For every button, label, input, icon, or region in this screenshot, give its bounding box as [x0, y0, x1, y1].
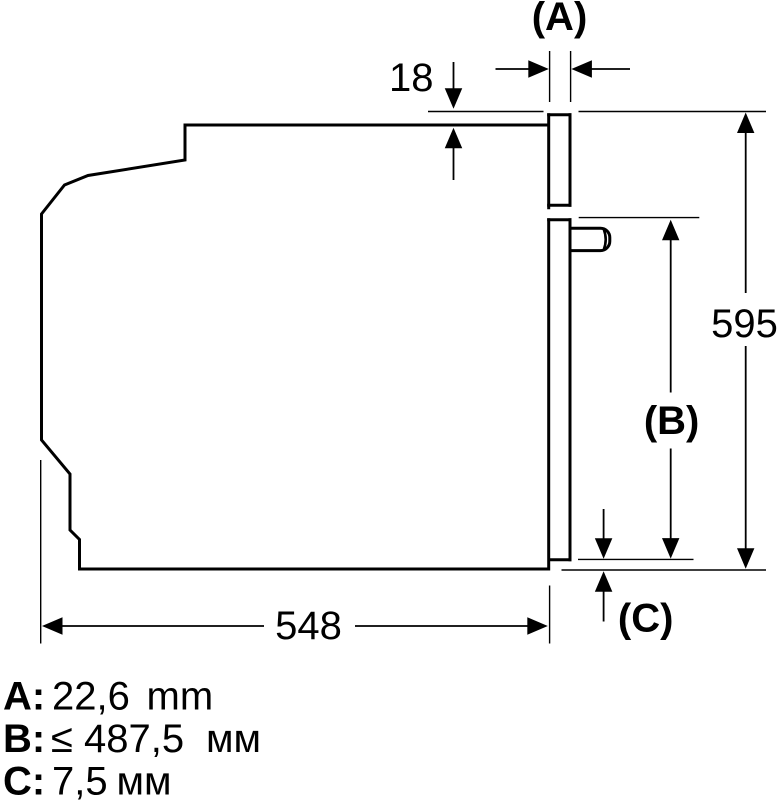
dimension B top arrowhead [662, 220, 679, 241]
svg-text:B:≤487,5мм: B:≤487,5мм [3, 717, 261, 761]
dimension 548 right arrowhead [527, 617, 548, 635]
dimension C upper arrowhead [595, 538, 613, 559]
dimension 548 left arrowhead [42, 617, 63, 635]
svg-text:18: 18 [389, 56, 434, 100]
door upper section left edge [547, 113, 550, 209]
dimension A right extension line [570, 51, 572, 102]
dimension A left arrowhead [528, 60, 549, 77]
svg-text:C:7,5мм: C:7,5мм [3, 760, 172, 800]
oven body outline [42, 125, 551, 569]
dimension 548 left line [62, 625, 264, 627]
door upper section bottom edge [547, 204, 571, 207]
svg-text:A:22,6mm: A:22,6mm [3, 675, 213, 719]
dimension 595 top arrowhead [737, 113, 754, 134]
dimension C upper arrow stem [603, 509, 605, 539]
dimension 595 bottom arrowhead [737, 548, 754, 569]
door handle outline [571, 228, 610, 250]
dimension B bottom arrowhead [662, 538, 679, 559]
dimension B lower line [670, 449, 672, 540]
door lower section left edge [547, 218, 550, 570]
dimension 548 right extension line [549, 586, 551, 644]
door lower section top edge [547, 218, 571, 221]
door lower section right edge [569, 218, 572, 561]
svg-text:595: 595 [711, 302, 778, 346]
dimension A right arrow line [591, 68, 630, 70]
dimension 595 upper line [745, 132, 747, 293]
svg-text:(C): (C) [618, 596, 674, 640]
dimension C lower arrow stem [603, 591, 605, 622]
dimension A right arrowhead [571, 60, 592, 77]
dimension 18 upper arrow stem [453, 62, 455, 90]
dimension A left arrow line [496, 68, 530, 70]
dimension C lower arrowhead [595, 571, 613, 592]
svg-text:(B): (B) [644, 399, 700, 443]
dimension 18 upper arrowhead [445, 88, 463, 109]
door upper section top edge [547, 113, 571, 116]
dimension B top extension line [579, 217, 700, 219]
dimension A left extension line [549, 51, 551, 102]
door handle cap line [604, 229, 606, 249]
dimension 595 lower line [745, 346, 747, 549]
dimension 548 right line [355, 625, 528, 627]
door bottom edge [548, 558, 572, 561]
dimension B upper line [670, 240, 672, 393]
top extension line right segment [579, 111, 767, 113]
dimension 18 lower arrow stem [453, 148, 455, 181]
svg-text:(A): (A) [532, 0, 588, 39]
dimension 548 left extension line [40, 460, 42, 644]
dimension C bottom extension line [562, 569, 767, 571]
svg-text:548: 548 [275, 604, 342, 648]
dimension C top extension line [578, 558, 694, 560]
door upper section right edge [569, 113, 572, 207]
dimension 18 lower arrowhead [445, 128, 463, 149]
top extension line left segment [428, 111, 544, 113]
